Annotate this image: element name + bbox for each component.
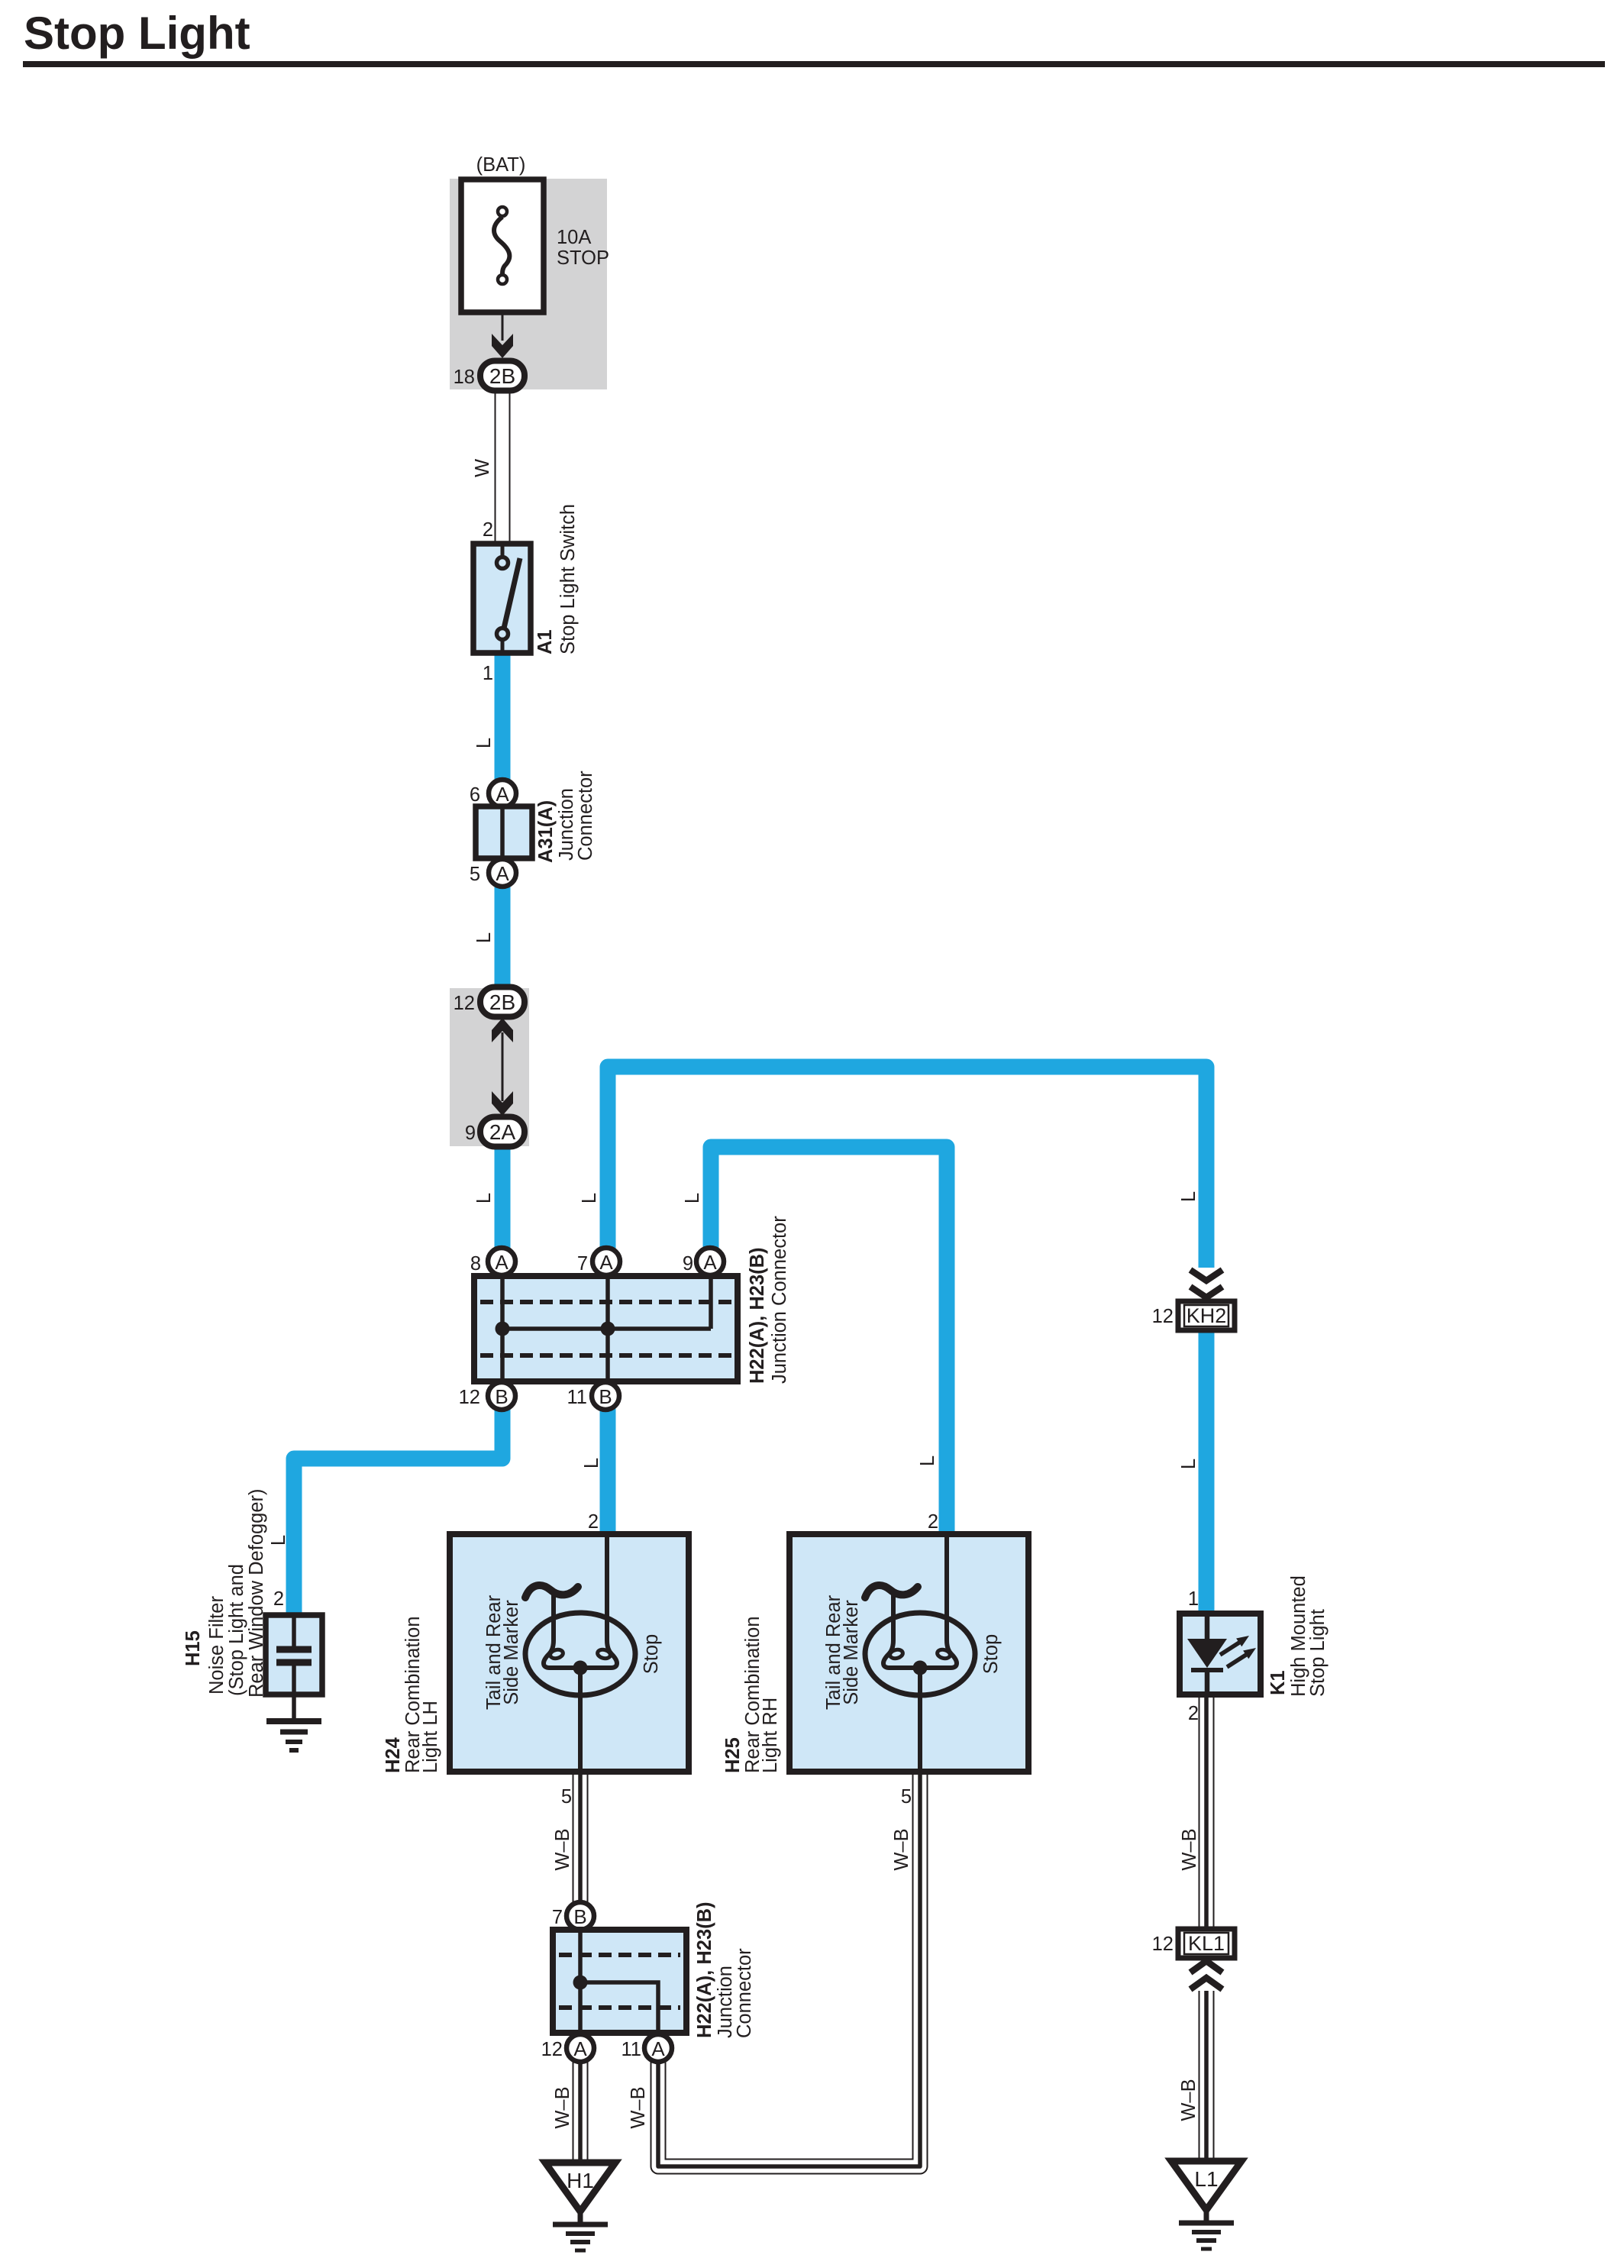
wire L from switch pin 1 to junction connector A31 pin 6: [495, 650, 511, 783]
wire L from connector 2A pin 9 to junction connector pin 8: [495, 1144, 511, 1252]
svg-text:Junction: Junction: [556, 788, 577, 861]
svg-text:12: 12: [454, 993, 475, 1014]
svg-text:11: 11: [567, 1387, 587, 1408]
connector KH2: [1178, 1301, 1235, 1330]
junction connector H22(A), H23(B): [474, 1276, 738, 1381]
svg-text:Stop: Stop: [641, 1634, 662, 1674]
svg-text:H25: H25: [722, 1737, 744, 1773]
fuse 10A STOP: [461, 179, 544, 312]
ground H1: [545, 2163, 615, 2250]
svg-text:L: L: [581, 1458, 602, 1468]
arrow from fuse to connector 2B: [492, 312, 513, 358]
svg-text:KL1: KL1: [1188, 1932, 1225, 1955]
svg-text:12: 12: [1152, 1306, 1174, 1327]
svg-text:W–B: W–B: [628, 2086, 649, 2128]
svg-text:18: 18: [454, 367, 475, 388]
wire L from KH2 to high mounted stop light K1 pin 1: [1199, 1330, 1215, 1617]
svg-text:Noise Filter: Noise Filter: [206, 1596, 228, 1695]
svg-text:6: 6: [470, 784, 480, 806]
terminal A pin 9: [696, 1248, 724, 1275]
svg-text:Connector: Connector: [734, 1948, 755, 2038]
svg-text:A: A: [496, 783, 509, 806]
svg-text:B: B: [573, 1905, 586, 1928]
svg-text:Light RH: Light RH: [760, 1698, 781, 1773]
svg-text:12: 12: [541, 2039, 563, 2060]
svg-text:L: L: [473, 932, 495, 943]
svg-text:1: 1: [1188, 1588, 1199, 1610]
arrow pair between 2B and 2A: [492, 1018, 513, 1116]
svg-text:STOP: STOP: [557, 247, 609, 269]
svg-text:L1: L1: [1194, 2167, 1218, 2191]
svg-text:High Mounted: High Mounted: [1288, 1575, 1309, 1697]
svg-text:W–B: W–B: [1178, 2079, 1199, 2121]
svg-text:B: B: [495, 1385, 508, 1408]
svg-text:1: 1: [483, 663, 493, 684]
title rule: [23, 61, 1605, 67]
connector KL1: [1178, 1929, 1235, 1958]
svg-text:A: A: [496, 862, 509, 885]
svg-text:Side Marker: Side Marker: [501, 1600, 522, 1705]
svg-text:L: L: [682, 1193, 703, 1203]
svg-text:Junction: Junction: [715, 1966, 736, 2038]
svg-text:L: L: [917, 1455, 938, 1466]
svg-text:H24: H24: [383, 1737, 404, 1773]
svg-text:Connector: Connector: [575, 771, 596, 861]
svg-text:H22(A), H23(B): H22(A), H23(B): [747, 1247, 768, 1384]
ground of noise filter: [266, 1721, 321, 1750]
svg-text:Stop: Stop: [980, 1634, 1002, 1674]
svg-text:7: 7: [552, 1907, 563, 1928]
rear combination light RH H25: [789, 1534, 1028, 1772]
wire L from junction pin 7 to connector KH2: [608, 1067, 1206, 1268]
connector KL1 chevrons: [1190, 1961, 1222, 1989]
svg-text:W–B: W–B: [552, 2086, 573, 2128]
svg-text:12: 12: [1152, 1934, 1174, 1955]
terminal B pin 12: [488, 1382, 515, 1410]
svg-text:Stop Light: Stop Light: [1307, 1609, 1329, 1697]
connector 2B: [480, 987, 525, 1017]
A31 pin 6 terminal A: [489, 780, 516, 807]
bulb tail/stop LH: [525, 1534, 635, 1772]
svg-text:L: L: [1178, 1459, 1199, 1469]
svg-text:(Stop Light and: (Stop Light and: [226, 1564, 247, 1696]
svg-text:H22(A), H23(B): H22(A), H23(B): [694, 1901, 715, 2038]
svg-text:A: A: [599, 1251, 613, 1274]
svg-text:KH2: KH2: [1187, 1304, 1227, 1327]
svg-text:5: 5: [561, 1786, 572, 1808]
svg-text:L: L: [473, 1193, 495, 1203]
svg-text:2: 2: [273, 1588, 284, 1610]
svg-text:K1: K1: [1267, 1670, 1289, 1695]
svg-text:5: 5: [470, 864, 480, 885]
svg-text:9: 9: [465, 1123, 476, 1144]
svg-text:A: A: [703, 1251, 717, 1274]
wire W-B from junction pin 11 to rear combination light RH pin 5: [658, 1770, 920, 2166]
svg-text:H15: H15: [182, 1630, 204, 1666]
svg-text:9: 9: [683, 1253, 693, 1275]
svg-text:2A: 2A: [489, 1120, 516, 1144]
wire L from junction pin 9 to rear combination light RH pin 2: [711, 1147, 947, 1537]
svg-text:2: 2: [928, 1511, 938, 1533]
svg-text:W: W: [472, 459, 493, 477]
svg-text:2B: 2B: [489, 364, 515, 388]
svg-text:2: 2: [588, 1511, 599, 1533]
svg-text:A: A: [495, 1251, 509, 1274]
svg-text:10A: 10A: [557, 227, 591, 248]
svg-text:W–B: W–B: [552, 1828, 573, 1870]
wire L from junction pin 11 to rear combination light LH pin 2: [600, 1405, 616, 1537]
svg-text:A1: A1: [534, 629, 556, 654]
connector 2B-2A shading: [450, 988, 529, 1146]
wire W-B from junction pin 12 to ground H1: [573, 2060, 589, 2163]
wire L from A31 pin 5 to connector 2B pin 12: [495, 884, 511, 989]
wire L from junction pin 12 to noise filter H15 pin 2: [294, 1405, 502, 1617]
svg-text:L: L: [473, 738, 495, 748]
svg-text:12: 12: [459, 1387, 480, 1408]
terminal B pin 7: [567, 1902, 594, 1930]
terminal A pin 8: [488, 1248, 515, 1275]
high mounted stop light K1 (LED): [1180, 1614, 1261, 1695]
svg-text:Side Marker: Side Marker: [841, 1600, 862, 1705]
svg-text:Rear Window Defogger): Rear Window Defogger): [246, 1488, 267, 1698]
svg-text:H1: H1: [567, 2169, 594, 2192]
svg-text:Junction Connector: Junction Connector: [769, 1216, 790, 1384]
stop light switch A1: [473, 544, 531, 653]
svg-text:2B: 2B: [489, 990, 515, 1014]
connector KH2 chevrons: [1190, 1270, 1222, 1297]
wire W from fuse 2B to stop light switch pin 2: [495, 382, 511, 547]
junction connector A31(A): [476, 806, 532, 858]
svg-text:L: L: [268, 1535, 289, 1546]
svg-text:Light LH: Light LH: [420, 1701, 441, 1773]
svg-text:L: L: [1178, 1191, 1199, 1202]
svg-text:W–B: W–B: [1179, 1828, 1200, 1870]
svg-text:Stop Light Switch: Stop Light Switch: [557, 504, 579, 654]
svg-text:(BAT): (BAT): [476, 154, 526, 176]
noise filter H15: [266, 1615, 322, 1720]
terminal A pin 11: [644, 2034, 672, 2062]
A31 pin 5 terminal A: [489, 859, 516, 887]
svg-text:Stop Light: Stop Light: [24, 8, 250, 59]
rear combination light LH H24: [450, 1534, 689, 1772]
svg-text:A: A: [573, 2037, 587, 2060]
terminal A pin 12: [567, 2034, 594, 2062]
svg-text:L: L: [579, 1193, 600, 1203]
fuse block shading: [450, 179, 607, 389]
svg-text:W–B: W–B: [891, 1828, 912, 1870]
svg-text:8: 8: [470, 1253, 481, 1275]
svg-text:11: 11: [622, 2039, 641, 2060]
connector 2B (fuse output): [480, 361, 525, 391]
svg-text:A31(A): A31(A): [535, 800, 557, 863]
terminal B pin 11: [592, 1382, 619, 1410]
svg-text:A: A: [651, 2037, 665, 2060]
terminal A pin 7: [592, 1248, 620, 1275]
wire W-B from KL1 to ground L1: [1199, 1991, 1215, 2162]
ground L1: [1171, 2161, 1241, 2249]
svg-text:7: 7: [577, 1253, 588, 1275]
bulb tail/stop RH: [865, 1534, 975, 1772]
svg-text:5: 5: [901, 1786, 912, 1808]
svg-text:B: B: [599, 1385, 612, 1408]
wire W-B from H24 pin 5 to junction H22(B) pin 7: [573, 1772, 589, 1903]
wire W-B from K1 pin 2 to connector KL1: [1199, 1695, 1215, 1930]
connector 2A: [480, 1117, 525, 1147]
svg-text:2: 2: [483, 519, 493, 541]
junction connector H22(A), H23(B) lower: [553, 1930, 686, 2033]
svg-text:2: 2: [1188, 1703, 1199, 1724]
